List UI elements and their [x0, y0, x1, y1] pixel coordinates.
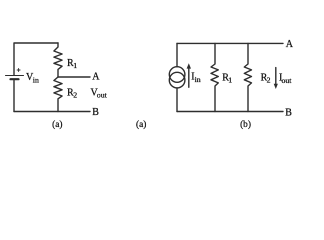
svg-text:out: out — [97, 91, 108, 100]
svg-text:1: 1 — [228, 76, 232, 85]
svg-text:A: A — [92, 72, 100, 83]
svg-text:in: in — [195, 75, 201, 84]
svg-text:out: out — [282, 76, 293, 85]
svg-text:2: 2 — [73, 90, 77, 99]
svg-text:(a): (a) — [136, 119, 146, 130]
svg-text:1: 1 — [73, 61, 77, 70]
svg-text:(b): (b) — [240, 119, 251, 130]
svg-text:in: in — [33, 75, 39, 84]
svg-text:B: B — [92, 107, 99, 118]
svg-text:(a): (a) — [52, 119, 62, 130]
svg-text:B: B — [285, 107, 292, 118]
svg-text:2: 2 — [267, 76, 271, 85]
svg-text:A: A — [286, 39, 294, 50]
